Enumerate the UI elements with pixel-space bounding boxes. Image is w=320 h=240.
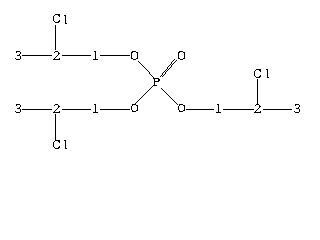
atom label l of top chlorine Cl	[64, 15, 67, 24]
atom C2 label (bottom-left chain)	[53, 104, 60, 113]
bond O-P diagonal (top-left ester oxygen to phosphorus)	[138, 61, 154, 78]
atom C2 label (bottom-right chain)	[254, 104, 261, 113]
atom label C of top chlorine Cl	[53, 14, 60, 23]
atom label C of right chlorine Cl	[254, 69, 261, 78]
bond P-O diagonal (phosphorus to bottom-left ester oxygen)	[135, 86, 153, 104]
bond C1-O (bottom-left chain)	[100, 109, 130, 110]
bond C2-C1 (bottom-left chain)	[62, 109, 91, 110]
bond C2-C3 (bottom-right chain)	[263, 109, 292, 110]
atom O label (top-left ester oxygen)	[131, 51, 138, 60]
bond P-O diagonal (phosphorus to bottom-right ester oxygen)	[161, 88, 178, 105]
bond C1-C2 (bottom-right chain)	[223, 109, 254, 110]
atom C2 label (top-left chain)	[53, 51, 60, 60]
atom O label (bottom-left ester oxygen)	[131, 104, 138, 112]
atom O label (bottom-right ester oxygen)	[178, 104, 185, 112]
double bond P=O lower line	[162, 60, 177, 77]
atom label l of right chlorine Cl	[266, 69, 269, 78]
bond C2-Cl vertical stub (bottom chlorine)	[55, 114, 56, 140]
atom C1 label (top-left chain)	[93, 51, 98, 60]
atom C3 label (top-left chain)	[15, 51, 21, 60]
bond O-C1 (bottom-right chain)	[186, 109, 214, 110]
atom O label (phosphoryl oxygen)	[178, 51, 185, 60]
atom P label (phosphorus center)	[153, 78, 160, 86]
atom C3 label (bottom-right chain)	[294, 104, 300, 113]
bond Cl-C2 vertical stub (top chlorine)	[55, 25, 56, 50]
bond C3-C2 (top-left chain)	[22, 55, 52, 56]
bond C2-Cl vertical stub (right chlorine)	[257, 79, 258, 104]
bond C1-O (top-left chain)	[100, 55, 130, 56]
atom C1 label (bottom-right chain)	[216, 104, 221, 113]
atom C3 label (bottom-left chain)	[15, 104, 21, 113]
bond C3-C2 (bottom-left chain)	[22, 109, 52, 110]
atom label C of bottom chlorine Cl	[53, 140, 60, 149]
atom label l of bottom chlorine Cl	[64, 140, 67, 149]
double bond P=O upper line	[160, 59, 175, 77]
atom C1 label (bottom-left chain)	[93, 104, 98, 113]
bond C2-C1 (top-left chain)	[62, 55, 91, 56]
